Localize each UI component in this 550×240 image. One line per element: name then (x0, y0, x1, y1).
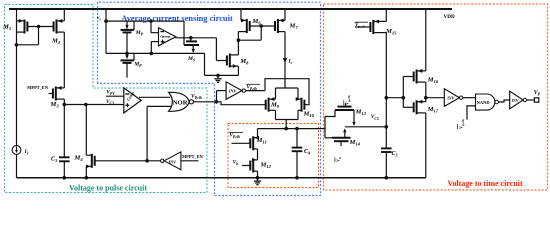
svg-text:C5: C5 (392, 151, 398, 158)
svg-text:C4: C4 (304, 149, 310, 156)
svg-text:MS: MS (187, 56, 196, 63)
svg-text:MPPT_EN: MPPT_EN (27, 85, 49, 90)
svg-text:VDD: VDD (444, 14, 455, 20)
svg-text:VP: VP (534, 90, 541, 97)
svg-text:INV: INV (446, 96, 454, 101)
svg-text:NAND: NAND (477, 100, 491, 105)
svg-text:MP: MP (135, 30, 144, 37)
svg-text:Voltage to pulse circuit: Voltage to pulse circuit (69, 184, 147, 193)
svg-text:INV: INV (228, 89, 238, 94)
svg-text:NOR: NOR (173, 99, 188, 106)
svg-text:INV: INV (168, 159, 178, 164)
svg-text:C3: C3 (51, 156, 57, 163)
svg-text:Vp,clk: Vp,clk (355, 23, 365, 29)
svg-text:Vb: Vb (233, 159, 239, 166)
svg-text:Opamp: Opamp (160, 35, 170, 39)
svg-text:Voltage to time circuit: Voltage to time circuit (447, 179, 523, 188)
svg-text:MP′: MP′ (133, 60, 143, 68)
svg-text:INV: INV (511, 99, 519, 103)
svg-text:I1: I1 (24, 149, 29, 156)
svg-text:MPPT_EN: MPPT_EN (182, 154, 204, 159)
